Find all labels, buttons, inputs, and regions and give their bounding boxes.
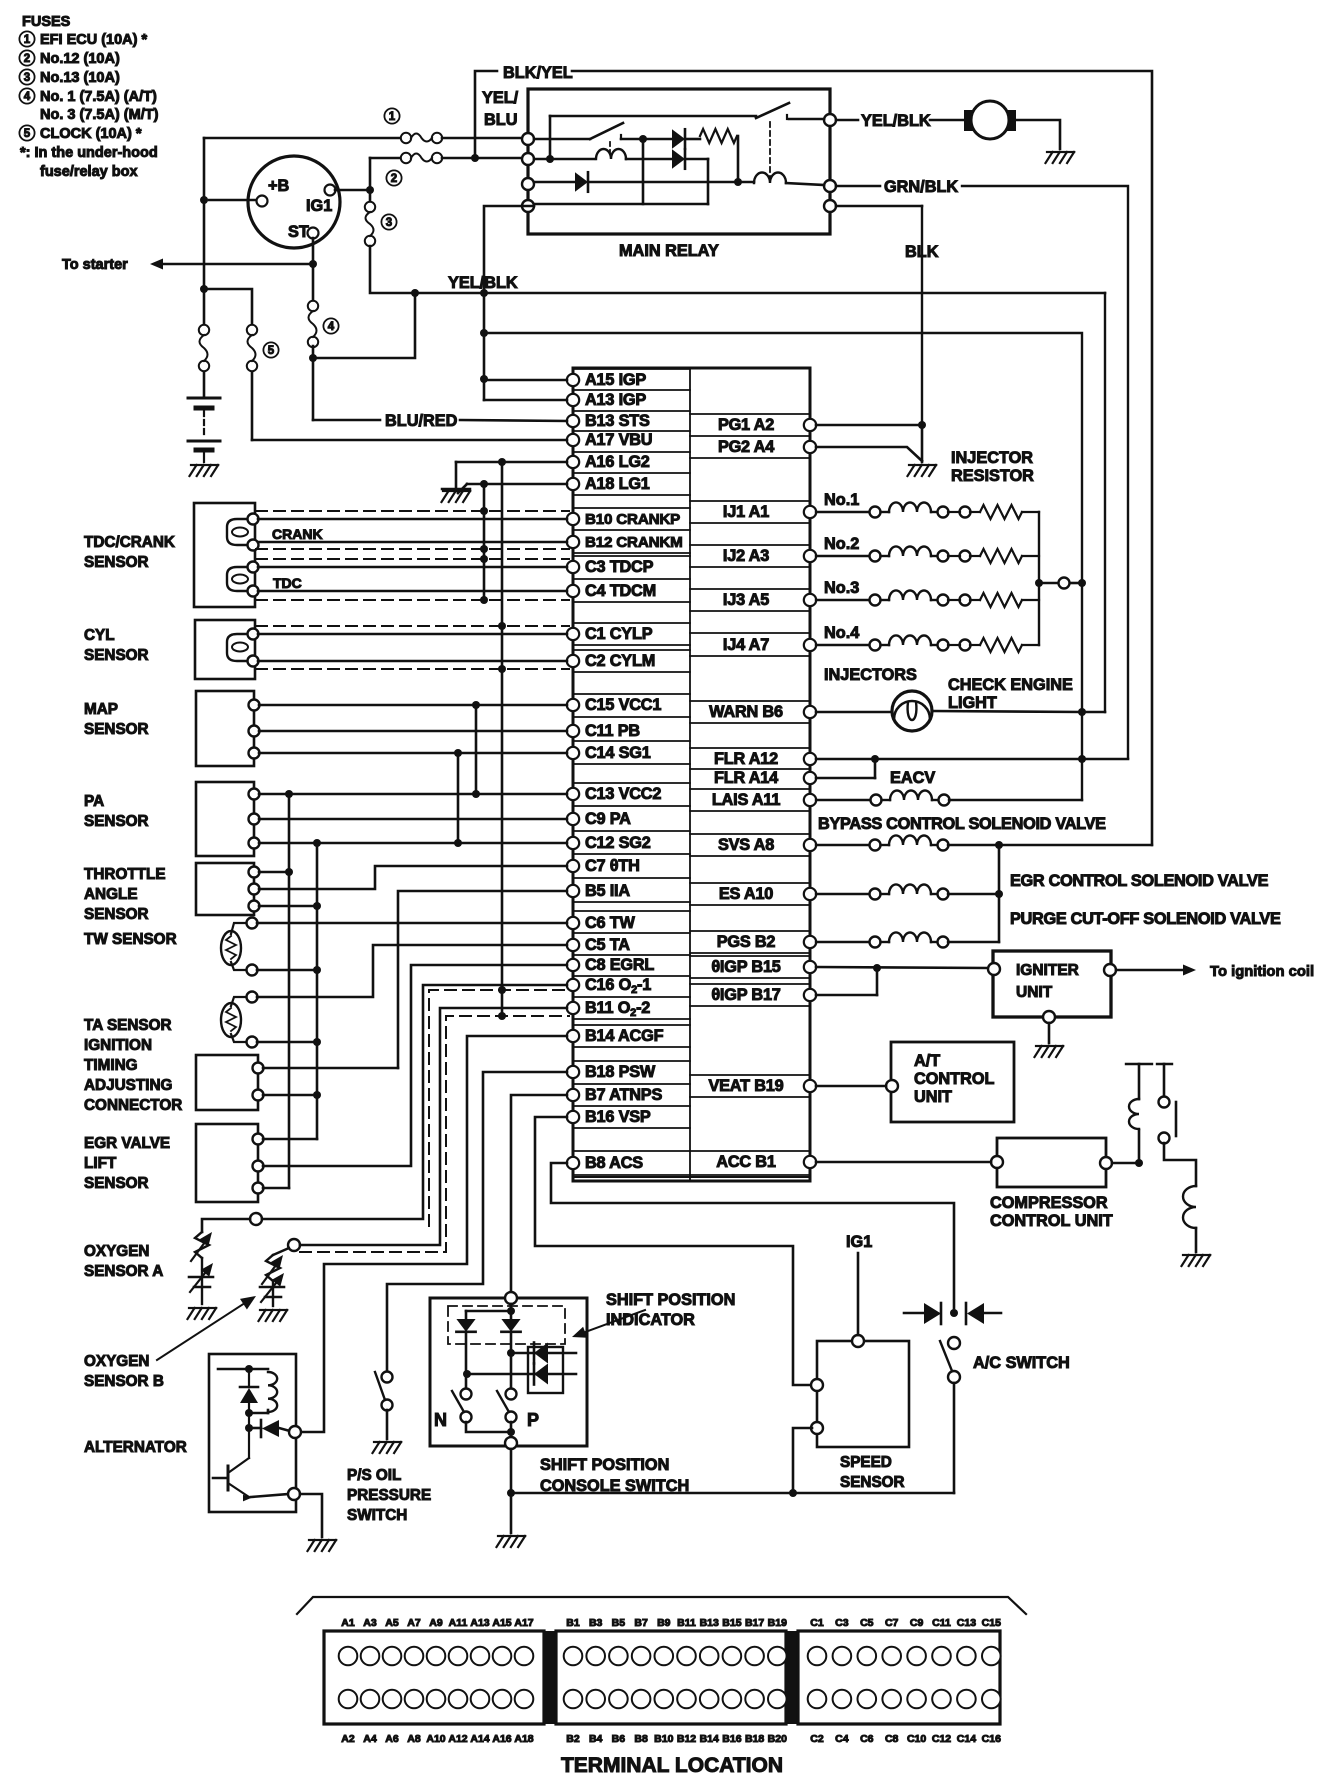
wire TA ground stub <box>257 1041 317 1044</box>
svg-text:SVS A8: SVS A8 <box>718 836 774 854</box>
alternator transistor <box>213 1477 228 1480</box>
AC relay coil branch <box>1126 1063 1152 1065</box>
svg-text:B12 CRANKM: B12 CRANKM <box>585 534 683 551</box>
svg-text:PG2 A4: PG2 A4 <box>718 438 774 456</box>
solenoid bus vertical <box>998 845 1001 942</box>
relay diode D2 <box>672 149 685 169</box>
svg-text:B7 ATNPS: B7 ATNPS <box>585 1086 662 1104</box>
console internal feed <box>510 1304 513 1311</box>
wire fuse1 to relay <box>442 137 528 140</box>
svg-text:YEL/BLK: YEL/BLK <box>861 112 931 130</box>
svg-text:UNIT: UNIT <box>914 1088 952 1106</box>
ECU pin C12 SG2 <box>567 837 579 849</box>
svg-text:No.2: No.2 <box>824 535 859 553</box>
terminal MAP1 <box>249 700 260 711</box>
wire C13 VCC2 <box>259 793 567 796</box>
relay top internal wire <box>550 115 756 118</box>
relay terminal T1 <box>522 133 534 145</box>
wire riser fuse2/fuse3 <box>369 158 372 203</box>
svg-text:B12: B12 <box>677 1733 696 1745</box>
svg-text:EACV: EACV <box>890 769 935 787</box>
svg-text:EFI ECU (10A) *: EFI ECU (10A) * <box>40 32 148 48</box>
ground O2B <box>260 1309 266 1311</box>
wire N bottom <box>466 1422 511 1432</box>
wire B10 CRANKP <box>258 518 567 521</box>
fan motor M1 <box>964 110 973 131</box>
relay terminal R2 <box>824 180 836 192</box>
terminal CYL- <box>248 656 259 667</box>
svg-text:A7: A7 <box>407 1617 421 1629</box>
alternator box <box>209 1354 296 1512</box>
ECU pin LAIS A11 <box>804 794 816 806</box>
wire diode3 to coil2 <box>590 181 754 184</box>
SG bus vertical <box>457 753 460 843</box>
svg-text:A3: A3 <box>363 1617 377 1629</box>
svg-text:A13 IGP: A13 IGP <box>585 391 646 409</box>
wire P bottom <box>510 1422 513 1437</box>
svg-text:A4: A4 <box>363 1733 377 1745</box>
switch P <box>506 1389 517 1400</box>
svg-text:To starter: To starter <box>62 257 128 273</box>
wire fuse3 to YEL/BLK line <box>370 246 1105 293</box>
AC relay contact circles <box>1159 1097 1170 1108</box>
svg-text:ACC B1: ACC B1 <box>716 1153 776 1171</box>
compressor terminal right <box>1100 1157 1112 1169</box>
svg-text:A15: A15 <box>492 1617 511 1629</box>
svg-text:P: P <box>527 1410 539 1430</box>
svg-text:B5 IIA: B5 IIA <box>585 882 630 900</box>
wire T4 internal <box>534 203 708 206</box>
svg-text:TW SENSOR: TW SENSOR <box>84 931 177 948</box>
oxygen sensor B terminal <box>288 1239 300 1251</box>
svg-text:C3 TDCP: C3 TDCP <box>585 558 654 576</box>
ECU pin C5 TA <box>567 939 579 951</box>
svg-text:C13: C13 <box>957 1617 976 1629</box>
svg-text:C7 θTH: C7 θTH <box>585 857 640 875</box>
wire C8 EGRL <box>263 965 567 1166</box>
terminal EGR2 <box>253 1161 264 1172</box>
svg-text:B13: B13 <box>700 1617 719 1629</box>
ECU pin FLR A14 <box>804 772 816 784</box>
wire alternator ground <box>300 1494 322 1537</box>
svg-text:C11: C11 <box>932 1617 951 1629</box>
SVS A8 solenoid <box>816 844 869 846</box>
svg-text:ALTERNATOR: ALTERNATOR <box>84 1439 187 1456</box>
svg-text:A5: A5 <box>385 1617 399 1629</box>
wire C6 TW <box>257 922 567 925</box>
wire IG1 <box>857 1253 860 1335</box>
svg-text:4: 4 <box>24 91 31 103</box>
svg-text:BYPASS CONTROL SOLENOID VALVE: BYPASS CONTROL SOLENOID VALVE <box>818 815 1106 833</box>
wire fuse2 to relay <box>442 157 528 160</box>
svg-text:*: In the under-hood: *: In the under-hood <box>20 145 158 161</box>
svg-text:CRANK: CRANK <box>272 526 323 542</box>
shield dashed CYL upper <box>256 625 569 627</box>
svg-text:B11: B11 <box>677 1617 696 1629</box>
svg-text:C4: C4 <box>835 1733 849 1745</box>
svg-text:C1 CYLP: C1 CYLP <box>585 625 653 643</box>
svg-text:A16: A16 <box>492 1733 511 1745</box>
ECU pin PG1 A2 <box>804 419 816 431</box>
wire ACC B1 to compressor <box>816 1161 991 1164</box>
ignition switch +B terminal <box>257 196 268 207</box>
svg-text:C8 EGRL: C8 EGRL <box>585 956 654 974</box>
wire to +B <box>209 199 256 202</box>
junction A15 branch <box>480 375 488 383</box>
ECU pin WARN B6 <box>804 706 816 718</box>
svg-text:CHECK ENGINE: CHECK ENGINE <box>948 676 1073 694</box>
svg-text:WARN B6: WARN B6 <box>709 703 783 721</box>
wire contact2 to R1 <box>789 118 824 121</box>
oxygen sensor A terminal <box>250 1213 262 1225</box>
svg-text:PG1 A2: PG1 A2 <box>718 416 774 434</box>
wire resistor down <box>737 136 740 182</box>
compressor clutch coil <box>1183 1186 1196 1228</box>
svg-text:A16 LG2: A16 LG2 <box>585 453 650 471</box>
terminal CRANK+ <box>248 514 259 525</box>
ECU connector box <box>573 368 810 1181</box>
compressor control unit box <box>997 1138 1106 1187</box>
wire T3 line <box>534 181 575 184</box>
wire relay T4 to IGP riser <box>484 206 534 400</box>
terminal pins block C <box>808 1647 827 1666</box>
wire C16 O2-1 <box>262 985 567 1219</box>
ignition timing adjusting connector box <box>196 1055 258 1110</box>
ECU pin A13 IGP <box>567 394 579 406</box>
terminal TA2 <box>247 1037 258 1048</box>
wire A18 to ground diag <box>458 484 467 493</box>
wire B11 O2-2 <box>300 1008 567 1245</box>
svg-text:C5 TA: C5 TA <box>585 936 630 954</box>
fuse legend item No.12 (10A) <box>19 50 34 65</box>
injector bus vertical <box>1038 512 1040 645</box>
igniter unit box <box>993 951 1111 1017</box>
svg-text:No.3: No.3 <box>824 579 859 597</box>
svg-text:A2: A2 <box>341 1733 355 1745</box>
svg-text:GRN/BLK: GRN/BLK <box>884 178 958 196</box>
svg-text:MAP: MAP <box>84 701 118 718</box>
svg-text:CYL: CYL <box>84 627 115 644</box>
wire R2 to GRN/BLK bus <box>836 185 880 188</box>
ECU pin C15 VCC1 <box>567 699 579 711</box>
wire C15 VCC1 <box>259 704 567 707</box>
TA sensor thermistor <box>221 1003 241 1037</box>
wire to starter <box>160 263 313 266</box>
terminal connector block A <box>324 1631 544 1724</box>
relay switch blade 1 <box>590 123 623 139</box>
wire fuse4 to YEL-BLK riser <box>313 293 415 358</box>
igniter terminal right <box>1104 964 1116 976</box>
wire IG1 to riser <box>335 189 370 192</box>
alternator rotor coil <box>218 1368 268 1371</box>
junction ST-starter <box>309 260 317 268</box>
junction shield bus B <box>480 480 488 488</box>
svg-text:RESISTOR: RESISTOR <box>951 467 1034 485</box>
ECU pin C2 CYLM <box>567 655 579 667</box>
svg-text:C10: C10 <box>907 1733 926 1745</box>
PGS B2 solenoid <box>816 941 869 943</box>
svg-text:B4: B4 <box>589 1733 603 1745</box>
bottom common ground wire <box>511 1492 954 1495</box>
svg-text:CONTROL UNIT: CONTROL UNIT <box>990 1212 1113 1230</box>
svg-text:SENSOR: SENSOR <box>84 813 149 830</box>
svg-text:B10 CRANKP: B10 CRANKP <box>585 511 680 528</box>
svg-text:1: 1 <box>389 111 396 123</box>
wire thIGP B17 <box>816 994 877 997</box>
EACV solenoid LAIS A11 <box>816 799 870 801</box>
svg-text:4: 4 <box>328 321 335 333</box>
wire coil1 to diode2 <box>626 158 672 161</box>
svg-text:LIGHT: LIGHT <box>948 694 997 712</box>
ground PS switch <box>374 1441 380 1443</box>
oxygen sensor B element <box>273 1248 289 1255</box>
svg-text:B18: B18 <box>745 1733 764 1745</box>
wire battery feed vertical <box>203 138 206 331</box>
wire fuse1 line <box>204 137 400 140</box>
svg-text:C11 PB: C11 PB <box>585 722 640 740</box>
svg-text:fuse/relay box: fuse/relay box <box>40 164 138 180</box>
wire VEAT B19 to A/T <box>816 1085 886 1088</box>
svg-text:TERMINAL LOCATION: TERMINAL LOCATION <box>561 1754 783 1777</box>
speed sensor left terminals <box>811 1379 823 1391</box>
svg-text:B14: B14 <box>700 1733 719 1745</box>
fuse F4 <box>308 301 318 311</box>
terminal PA1 <box>249 789 260 800</box>
wire B18 PSW to PS switch <box>387 1072 567 1372</box>
relay terminal R3 <box>824 200 836 212</box>
wire throttle VCC stub <box>259 871 289 874</box>
injector No.4 <box>816 644 869 646</box>
shield bus C vertical <box>501 462 504 1016</box>
alternator bottom terminal <box>288 1488 300 1500</box>
svg-text:C1: C1 <box>810 1617 824 1629</box>
wire FLR A14 <box>816 777 875 780</box>
fuse legend item No. 1 (7.5A) (A/T) <box>19 88 34 103</box>
wire PG2 A4 to ground <box>816 447 922 461</box>
terminal MAP2 <box>249 726 260 737</box>
svg-text:IJ1 A1: IJ1 A1 <box>723 503 769 521</box>
svg-text:PA: PA <box>84 793 104 810</box>
wire C14 SG1 <box>259 752 567 755</box>
ECU pin C14 SG1 <box>567 747 579 759</box>
svg-text:SENSOR: SENSOR <box>84 647 149 664</box>
wire speed sensor ground <box>793 1428 812 1493</box>
svg-text:C15: C15 <box>982 1617 1001 1629</box>
wire A13 IGP <box>484 399 567 402</box>
wire coil2 to R2 <box>786 183 824 185</box>
junction contact1 <box>639 135 647 143</box>
svg-text:C2 CYLM: C2 CYLM <box>585 652 655 670</box>
EGR valve lift sensor box <box>196 1124 258 1202</box>
ECU pin IJ1 A1 <box>804 506 816 518</box>
wire PG1 A2 to ground <box>816 424 922 427</box>
ground clutch <box>1183 1254 1189 1256</box>
svg-text:B14 ACGF: B14 ACGF <box>585 1027 664 1045</box>
wire ADJ2 ground stub <box>263 1094 317 1097</box>
wire TW ground stub <box>257 969 317 972</box>
ECU pin C9 PA <box>567 813 579 825</box>
fuse F-main (battery) <box>199 325 209 335</box>
indicator diode D1 <box>511 1352 576 1355</box>
svg-text:2: 2 <box>391 173 397 185</box>
svg-text:B9: B9 <box>657 1617 671 1629</box>
svg-text:C8: C8 <box>885 1733 899 1745</box>
fuse F5 clock <box>247 325 257 335</box>
svg-text:ES A10: ES A10 <box>719 885 773 903</box>
TW sensor thermistor <box>221 931 241 965</box>
terminal MAP3 <box>249 748 260 759</box>
relay terminal R1 <box>824 114 836 126</box>
A/C switch <box>948 1337 960 1349</box>
svg-text:C12: C12 <box>932 1733 951 1745</box>
wire contact to T4 line <box>642 139 645 204</box>
wire clutch down <box>1164 1143 1196 1186</box>
svg-text:C12 SG2: C12 SG2 <box>585 834 651 852</box>
svg-text:FUSES: FUSES <box>22 14 71 30</box>
shield dashed CRANK lower <box>256 548 569 550</box>
wire A15 IGP <box>484 379 567 382</box>
svg-text:IJ4 A7: IJ4 A7 <box>723 636 769 654</box>
svg-text:SWITCH: SWITCH <box>347 1507 407 1524</box>
AC relay contact bar <box>1175 1102 1178 1136</box>
wire EGR1 to SG2 bus <box>263 1138 317 1141</box>
svg-text:B16: B16 <box>722 1733 741 1745</box>
wire fuse2 line <box>370 157 400 160</box>
relay resistor R <box>687 138 700 141</box>
svg-text:+B: +B <box>268 177 290 195</box>
svg-text:ST: ST <box>288 223 309 241</box>
ECU pin C16 O2-1 <box>567 979 579 991</box>
svg-text:A/T: A/T <box>914 1052 940 1070</box>
svg-text:ANGLE: ANGLE <box>84 886 138 903</box>
junction shield bus C <box>498 458 506 466</box>
ECU pin C7 θTH <box>567 860 579 872</box>
ECU pin SVS A8 <box>804 839 816 851</box>
svg-text:A8: A8 <box>407 1733 421 1745</box>
wire B7 ATNPS to console <box>511 1095 567 1293</box>
ECU pin A18 LG1 <box>567 478 579 490</box>
speed sensor box <box>817 1341 909 1447</box>
junction fuse4 node <box>309 354 317 362</box>
terminal connector separator 2 <box>786 1631 798 1724</box>
ECU pin A17 VBU <box>567 434 579 446</box>
wire console to ground line <box>510 1449 513 1533</box>
ES A10 solenoid <box>816 893 869 895</box>
ground O2A <box>189 1307 195 1309</box>
SG2 bus vertical <box>316 843 319 1139</box>
terminal TH1 <box>249 867 260 878</box>
wire C2 CYLM <box>258 660 567 663</box>
svg-text:TIMING: TIMING <box>84 1057 138 1074</box>
fuse legend item CLOCK (10A) * <box>19 125 34 140</box>
ECU pin C1 CYLP <box>567 628 579 640</box>
igniter terminal left <box>988 963 1000 975</box>
svg-text:SPEED: SPEED <box>840 1454 892 1471</box>
svg-text:FLR A14: FLR A14 <box>714 769 778 787</box>
junction injector bus <box>1035 579 1043 587</box>
wire B13 STS BLU/RED <box>313 419 380 422</box>
wire fuse5 branch <box>204 289 252 331</box>
svg-text:SENSOR: SENSOR <box>84 906 149 923</box>
indicator diode D2 <box>467 1373 576 1376</box>
junction BLK/YEL riser <box>471 154 479 162</box>
svg-text:B16 VSP: B16 VSP <box>585 1108 651 1126</box>
svg-text:3: 3 <box>24 72 30 84</box>
wire B12 CRANKM <box>258 541 567 544</box>
svg-text:A17: A17 <box>514 1617 533 1629</box>
terminal TW2 <box>247 965 258 976</box>
speed sensor IG1 terminal <box>852 1335 864 1347</box>
terminal EGR3 <box>253 1183 264 1194</box>
injector No.2 <box>816 555 869 557</box>
shield bus B vertical <box>483 484 486 600</box>
terminal CRANK- <box>248 540 259 551</box>
ECU pin C3 TDCP <box>567 561 579 573</box>
svg-text:SENSOR: SENSOR <box>84 554 149 571</box>
svg-text:A18 LG1: A18 LG1 <box>585 475 650 493</box>
terminal TH3 <box>249 901 260 912</box>
terminal ADJ1 <box>253 1063 264 1074</box>
ECU right column cell lines <box>690 413 810 415</box>
ECU pin ACC B1 <box>804 1156 816 1168</box>
terminal PA2 <box>249 814 260 825</box>
wire C1 CYLP <box>258 633 567 636</box>
svg-text:CONNECTOR: CONNECTOR <box>84 1097 182 1114</box>
VCC2 bus vertical <box>288 794 291 1188</box>
svg-text:C13 VCC2: C13 VCC2 <box>585 785 661 803</box>
MAP sensor box <box>196 691 254 766</box>
svg-text:5: 5 <box>268 345 275 357</box>
svg-text:INJECTORS: INJECTORS <box>824 666 917 684</box>
terminal ADJ2 <box>253 1090 264 1101</box>
wire throttle SG stub <box>259 905 317 908</box>
wire C3 TDCP <box>258 566 567 569</box>
terminal TA1 <box>247 992 258 1003</box>
relay diode D1 <box>672 129 685 149</box>
wire compressor out <box>1112 1162 1139 1165</box>
svg-text:C6: C6 <box>860 1733 874 1745</box>
console top terminal <box>505 1292 517 1304</box>
shield dashed O2-1 <box>429 990 569 1226</box>
wire B14 ACGF to alternator <box>300 1036 567 1432</box>
shield dashed TDC lower <box>256 599 569 601</box>
svg-text:IJ3 A5: IJ3 A5 <box>723 591 769 609</box>
wire C7 thTH <box>259 866 567 889</box>
svg-text:IG1: IG1 <box>846 1233 872 1251</box>
wire igniter ground <box>1048 1023 1051 1043</box>
ECU pin B7 ATNPS <box>567 1089 579 1101</box>
ground motor <box>1047 151 1053 153</box>
main relay box <box>528 89 830 234</box>
ECU pin A15 IGP <box>567 374 579 386</box>
ECU pin PG2 A4 <box>804 441 816 453</box>
shift position indicator dashed box <box>448 1306 565 1344</box>
igniter terminal bottom <box>1043 1011 1055 1023</box>
junction IGP branch <box>480 329 488 337</box>
svg-text:TDC/CRANK: TDC/CRANK <box>84 534 175 551</box>
svg-text:B18 PSW: B18 PSW <box>585 1063 656 1081</box>
svg-text:A/C SWITCH: A/C SWITCH <box>973 1354 1070 1372</box>
svg-text:MAIN RELAY: MAIN RELAY <box>619 242 719 260</box>
ECU pin C13 VCC2 <box>567 788 579 800</box>
terminal PA3 <box>249 838 260 849</box>
wire diode2 to T4 <box>687 158 708 161</box>
svg-text:EGR VALVE: EGR VALVE <box>84 1135 170 1152</box>
svg-text:IG1: IG1 <box>306 197 332 215</box>
svg-text:B15: B15 <box>722 1617 741 1629</box>
ground PG <box>909 464 915 466</box>
svg-text:EGR CONTROL SOLENOID VALVE: EGR CONTROL SOLENOID VALVE <box>1010 872 1269 890</box>
